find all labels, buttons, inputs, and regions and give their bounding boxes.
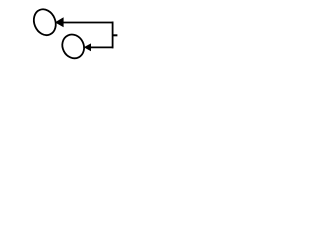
node 1 (ellipse, top-left) xyxy=(30,6,60,39)
arrowhead into node 1 xyxy=(55,17,64,27)
wire: top horizontal edge into node 1 xyxy=(63,22,114,24)
wire: stub tick at mid-height going right xyxy=(113,34,118,36)
wire: bottom horizontal edge into node 2 xyxy=(90,46,113,48)
wire: vertical connector bar xyxy=(112,22,114,49)
node 2 (ellipse, lower-middle) xyxy=(58,31,88,62)
arrowhead into node 2 xyxy=(84,43,91,51)
